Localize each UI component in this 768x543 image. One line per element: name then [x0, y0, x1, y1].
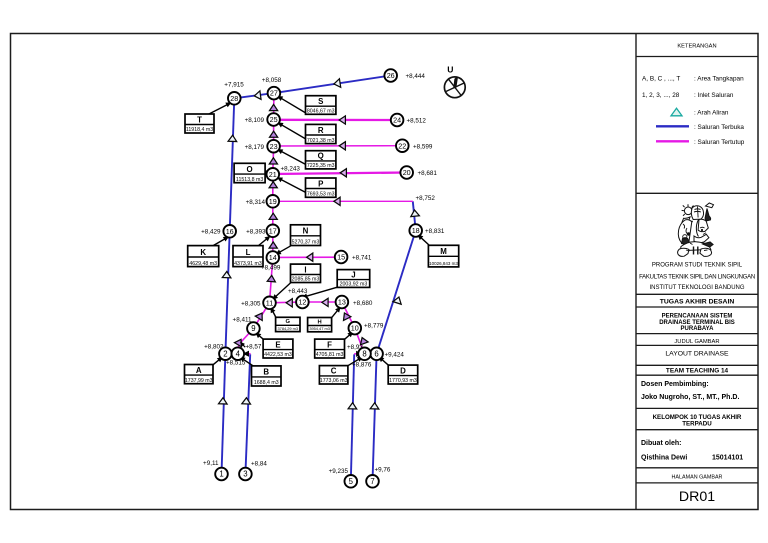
flow arrow on 8-10 — [358, 336, 368, 345]
leader K-16 — [213, 234, 231, 246]
leader I-11 — [270, 283, 290, 302]
svg-text:11513,8 m3: 11513,8 m3 — [236, 177, 263, 183]
legend arah aliran triangle — [671, 108, 729, 116]
leader B-4 — [238, 355, 254, 367]
svg-text:26: 26 — [387, 71, 395, 80]
svg-text:+8,779: +8,779 — [364, 323, 384, 330]
closed channel 13-12 — [302, 301, 342, 303]
flow arrow on 5-8 — [348, 403, 357, 409]
leader R-25 — [276, 120, 306, 139]
node 21 — [267, 168, 280, 181]
node 4 — [232, 347, 245, 360]
elevation label +8,802 — [204, 344, 224, 351]
flow arrow on 22-23 — [339, 142, 345, 150]
svg-text:INSTITUT TEKNOLOGI BANDUNG: INSTITUT TEKNOLOGI BANDUNG — [649, 285, 744, 291]
open channel 18-corner — [413, 201, 416, 230]
svg-text:A, B, C , ..., T: A, B, C , ..., T — [642, 76, 680, 83]
svg-text:Q: Q — [318, 152, 324, 161]
svg-text:4373,91 m3: 4373,91 m3 — [234, 261, 262, 267]
elevation label +8,411 — [233, 317, 252, 324]
DR01 cell — [679, 489, 715, 505]
elevation label +8,93 — [347, 344, 363, 351]
svg-text:4: 4 — [236, 349, 241, 358]
legend saluran terbuka — [656, 124, 744, 131]
flow arrow on 24-25 — [339, 116, 345, 124]
svg-text:6: 6 — [374, 349, 378, 358]
svg-text:20: 20 — [403, 168, 411, 177]
svg-text:9: 9 — [251, 324, 255, 333]
elevation label +8,429 — [201, 229, 221, 236]
flow arrow on 17-19 — [269, 213, 277, 219]
compass north arrow U — [444, 65, 465, 98]
svg-text:2003,92 m3: 2003,92 m3 — [340, 282, 368, 288]
leader N-14 — [274, 246, 291, 257]
node 16 — [223, 225, 236, 238]
closed channel 21-23 — [272, 146, 275, 174]
area box E — [263, 339, 293, 358]
svg-text:: Arah Aliran: : Arah Aliran — [694, 110, 729, 117]
svg-text:E: E — [275, 340, 280, 349]
dibuat oleh cell — [641, 440, 743, 462]
elevation label +8,741 — [352, 255, 372, 262]
svg-text:H: H — [318, 319, 322, 325]
svg-text:22: 22 — [398, 141, 406, 150]
flow arrow on 7-6 — [370, 403, 379, 409]
svg-text:+8,831: +8,831 — [425, 228, 445, 235]
svg-text:+8,802: +8,802 — [204, 344, 224, 351]
flow arrow on 14-17 — [269, 242, 277, 248]
svg-text:1: 1 — [219, 470, 223, 479]
svg-text:3954,47 m3: 3954,47 m3 — [309, 326, 330, 331]
svg-text:1688,4 m3: 1688,4 m3 — [254, 380, 279, 386]
svg-text:JUDUL GAMBAR: JUDUL GAMBAR — [674, 339, 719, 345]
leader S-27 — [276, 94, 306, 113]
node 5 — [345, 475, 358, 488]
svg-text:+8,243: +8,243 — [281, 165, 301, 172]
flow arrow on 3-4 — [242, 398, 251, 405]
svg-text:+8,058: +8,058 — [262, 77, 282, 84]
svg-text:+8,681: +8,681 — [418, 170, 438, 177]
open channel 1-2 — [222, 354, 226, 474]
flow arrow into 8 — [356, 351, 362, 357]
svg-text:+8,57: +8,57 — [246, 343, 262, 350]
elevation label +8,058 — [262, 77, 282, 84]
closed channel 12-11 — [270, 301, 303, 304]
elevation label +8,179 — [245, 144, 265, 151]
closed channel 19-21 — [272, 174, 274, 201]
node 8 — [358, 348, 371, 361]
svg-text:P: P — [318, 179, 323, 188]
svg-text:+8,599: +8,599 — [413, 143, 433, 150]
label leader +8,57 — [238, 340, 245, 347]
svg-text:+8,512: +8,512 — [407, 118, 427, 125]
svg-text:Dibuat oleh:: Dibuat oleh: — [641, 440, 681, 447]
flow arrow into 4 — [243, 351, 249, 357]
svg-text:LAYOUT DRAINASE: LAYOUT DRAINASE — [665, 350, 729, 357]
svg-text:15: 15 — [337, 253, 345, 262]
svg-text:D: D — [400, 366, 406, 375]
elevation label +9,11 — [203, 460, 219, 467]
svg-text:+8,444: +8,444 — [406, 73, 426, 80]
svg-text:A: A — [196, 366, 202, 375]
elevation label +8,444 — [406, 73, 426, 80]
flow arrow on 25-27 — [270, 104, 278, 110]
svg-text:7021,38 m3: 7021,38 m3 — [307, 138, 335, 144]
node 15 — [335, 251, 348, 264]
svg-text:+8,314: +8,314 — [246, 199, 266, 206]
svg-text:I: I — [304, 265, 306, 274]
elevation label +8,393 — [246, 229, 266, 236]
flow arrow on 27-28 — [254, 91, 261, 100]
elevation label +8,109 — [245, 117, 265, 124]
svg-text:N: N — [303, 227, 309, 236]
elevation label +8,831 — [425, 228, 445, 235]
svg-text:KETERANGAN: KETERANGAN — [677, 43, 716, 49]
closed channel 15-14 — [273, 256, 341, 258]
area box T — [185, 114, 214, 133]
closed channel 22-23 — [274, 145, 403, 147]
open channel 16-28 — [230, 98, 235, 231]
flow arrow on 23-25 — [270, 131, 278, 137]
closed channel 24-25 — [274, 119, 398, 121]
area box N — [291, 225, 321, 246]
elevation label +8,512 — [407, 118, 427, 125]
svg-text:FAKULTAS TEKNIK SIPIL DAN LING: FAKULTAS TEKNIK SIPIL DAN LINGKUNGAN — [639, 274, 755, 280]
leader E-9 — [254, 331, 264, 340]
elevation label +8,680 — [353, 300, 373, 307]
area box L — [233, 246, 263, 267]
node 9 — [247, 322, 260, 335]
leader Q-23 — [276, 147, 306, 165]
svg-text:+8,109: +8,109 — [245, 117, 265, 124]
node 13 — [336, 296, 349, 309]
svg-text:+9,76: +9,76 — [375, 467, 391, 474]
svg-text:+8,499: +8,499 — [261, 265, 281, 272]
node 1 — [215, 468, 228, 481]
area box P — [306, 178, 336, 198]
area box O — [234, 163, 265, 183]
elevation label +8,84 — [251, 461, 267, 468]
leader O-21 — [264, 170, 271, 177]
elevation label +8,305 — [241, 301, 261, 308]
svg-text:Joko Nugroho, ST., MT., Ph.D.: Joko Nugroho, ST., MT., Ph.D. — [641, 394, 739, 401]
title block header KETERANGAN — [677, 43, 716, 49]
halaman gambar cell — [672, 474, 723, 480]
elevation label +8,599 — [413, 143, 433, 150]
closed channel stub into 4 — [241, 353, 251, 355]
svg-text:16: 16 — [226, 227, 234, 236]
node 28 — [228, 92, 241, 105]
flow arrow on 21-23 — [269, 158, 277, 164]
node 3 — [239, 468, 252, 481]
node 25 — [267, 113, 280, 126]
svg-text:25: 25 — [270, 115, 278, 124]
flow arrow on corner-19 — [334, 197, 340, 205]
area box G — [276, 317, 300, 331]
leader L-17 — [258, 234, 272, 246]
svg-text:7: 7 — [370, 477, 374, 486]
closed channel stub into 8 — [354, 353, 364, 355]
leader D-6 — [377, 355, 389, 366]
dosen pembimbing cell — [641, 381, 739, 401]
layout drainase cell — [665, 350, 729, 357]
node 27 — [268, 87, 281, 100]
svg-text:+8,752: +8,752 — [416, 195, 436, 202]
node 14 — [267, 251, 280, 264]
svg-text:5: 5 — [349, 477, 354, 486]
svg-text:17: 17 — [269, 226, 277, 235]
svg-text:+8,741: +8,741 — [352, 255, 372, 262]
svg-text:1770,93 m3: 1770,93 m3 — [389, 378, 417, 384]
flow arrow on 19-21 — [269, 182, 277, 188]
svg-text:TUGAS AKHIR DESAIN: TUGAS AKHIR DESAIN — [660, 298, 735, 305]
svg-text:: Inlet Saluran: : Inlet Saluran — [694, 92, 734, 99]
team teaching cell — [666, 368, 729, 375]
svg-text:3: 3 — [243, 470, 247, 479]
svg-text:10026,843 m3: 10026,843 m3 — [429, 261, 458, 266]
svg-text:3784,29 m3: 3784,29 m3 — [278, 326, 299, 331]
elevation label +7,915 — [224, 81, 244, 88]
svg-text:11918,4 m3: 11918,4 m3 — [186, 127, 213, 133]
svg-text:19: 19 — [269, 197, 277, 206]
flow arrow on 20-21 — [340, 169, 346, 177]
elevation label +8,515 — [226, 359, 246, 366]
svg-text:L: L — [246, 248, 251, 257]
elevation label +9,235 — [329, 468, 349, 475]
svg-text:4422,53 m3: 4422,53 m3 — [264, 352, 292, 358]
node 6 — [370, 348, 383, 361]
judul gambar cell — [674, 339, 719, 345]
area box A — [185, 365, 214, 384]
flow arrow on 2-16 — [222, 271, 231, 277]
area box D — [388, 365, 418, 384]
svg-text:T: T — [197, 115, 202, 124]
ITB ganesha logo — [678, 203, 714, 256]
elevation label +8,443 — [288, 288, 308, 295]
svg-text:PROGRAM STUDI TEKNIK SIPIL: PROGRAM STUDI TEKNIK SIPIL — [652, 263, 743, 269]
svg-text:O: O — [247, 165, 253, 174]
svg-text:+9,11: +9,11 — [203, 460, 219, 467]
open channel 27-28 — [234, 93, 274, 98]
svg-text:: Area Tangkapan: : Area Tangkapan — [694, 76, 744, 83]
svg-text:14: 14 — [269, 253, 277, 262]
closed channel 25-27 — [273, 93, 275, 119]
area box C — [319, 366, 348, 385]
open channel 2-16 — [225, 231, 229, 353]
leader C-8 — [348, 354, 365, 365]
svg-text:+8,84: +8,84 — [251, 461, 267, 468]
svg-text:27: 27 — [270, 89, 278, 98]
closed channel 18corner-19 — [273, 200, 413, 202]
node 2 — [219, 347, 232, 360]
svg-text:4705,81 m3: 4705,81 m3 — [316, 352, 344, 358]
open channel 7-6 — [373, 354, 377, 482]
svg-text:+8,93: +8,93 — [347, 344, 363, 351]
node 23 — [267, 140, 280, 153]
svg-text:28: 28 — [230, 94, 238, 103]
svg-text:24: 24 — [393, 116, 401, 125]
node 22 — [396, 139, 409, 152]
node 24 — [391, 114, 404, 127]
svg-text:: Saluran Terbuka: : Saluran Terbuka — [694, 124, 744, 131]
svg-text:PERENCANAAN SISTEM: PERENCANAAN SISTEM — [662, 314, 733, 320]
svg-text:1, 2, 3, ..., 28: 1, 2, 3, ..., 28 — [642, 92, 680, 99]
svg-text:+8,429: +8,429 — [201, 229, 221, 236]
svg-text:DR01: DR01 — [679, 489, 715, 505]
elevation label +9,76 — [375, 467, 391, 474]
svg-text:1773,06 m3: 1773,06 m3 — [320, 378, 348, 384]
svg-text:PURABAYA: PURABAYA — [681, 326, 715, 332]
svg-text:8: 8 — [362, 349, 366, 358]
svg-text:23: 23 — [270, 142, 278, 151]
flow arrow on 12-11 — [286, 299, 292, 307]
flow arrow on 16-28 — [228, 135, 237, 141]
elevation label +8,499 — [261, 265, 281, 272]
svg-text:15014101: 15014101 — [712, 455, 743, 462]
area box H — [308, 318, 332, 332]
area box F — [315, 339, 345, 358]
svg-text:B: B — [263, 368, 269, 377]
svg-text:+8,515: +8,515 — [226, 359, 246, 366]
svg-text:5270,37 m3: 5270,37 m3 — [292, 240, 320, 246]
open channel 6-18 — [377, 231, 416, 354]
elevation label +8,243 — [281, 165, 301, 172]
flow arrow on 15-14 — [307, 253, 313, 261]
svg-text:DRAINASE TERMINAL BIS: DRAINASE TERMINAL BIS — [659, 320, 735, 326]
svg-text:Qisthina Dewi: Qisthina Dewi — [641, 455, 687, 462]
tugas akhir desain cell — [660, 298, 735, 305]
svg-text:G: G — [286, 319, 291, 325]
svg-text:S: S — [318, 97, 323, 106]
elevation label +8,752 — [416, 195, 436, 202]
svg-text:2085,85 m3: 2085,85 m3 — [292, 277, 320, 283]
legend saluran tertutup — [656, 139, 745, 146]
area box R — [306, 124, 336, 143]
svg-text:+8,443: +8,443 — [288, 288, 308, 295]
closed channel 20-21 — [273, 173, 407, 175]
area box K — [188, 246, 219, 267]
svg-text:TEAM TEACHING 14: TEAM TEACHING 14 — [666, 368, 729, 375]
closed channel 11-14 — [270, 258, 273, 303]
node 26 — [384, 69, 397, 82]
open channel 5-8 riser — [351, 354, 354, 481]
node 10 — [349, 322, 362, 335]
svg-text:7225,35 m3: 7225,35 m3 — [307, 163, 335, 169]
elevation label +8,779 — [364, 323, 384, 330]
leader G-11 — [268, 306, 276, 318]
svg-text:12: 12 — [298, 298, 306, 307]
closed channel 9-11 — [253, 303, 269, 329]
svg-text:+8,680: +8,680 — [353, 300, 373, 307]
node 19 — [267, 195, 280, 208]
closed channel 8-10 — [355, 328, 365, 354]
svg-text:+9,424: +9,424 — [385, 352, 405, 359]
flow arrow on 26-27 — [333, 79, 340, 88]
svg-text:11: 11 — [266, 298, 273, 307]
node 18 — [409, 224, 422, 237]
flow arrow on 4-9 — [234, 337, 244, 346]
svg-text:U: U — [447, 65, 453, 75]
svg-text:21: 21 — [269, 170, 277, 179]
closed channel 4-9 — [238, 329, 254, 354]
leader T-28 — [208, 100, 233, 114]
area box M — [428, 245, 458, 267]
leader F-10 — [345, 330, 355, 340]
svg-text:R: R — [318, 126, 324, 135]
svg-text:8046,67 m3: 8046,67 m3 — [307, 109, 335, 115]
open channel 3-4 riser — [245, 354, 250, 474]
svg-text:Dosen Pembimbing:: Dosen Pembimbing: — [641, 381, 709, 388]
svg-text:7693,53 m3: 7693,53 m3 — [307, 192, 335, 198]
svg-text:+7,915: +7,915 — [224, 81, 244, 88]
flow arrow on 18-corner — [410, 210, 419, 217]
svg-text:18: 18 — [412, 226, 420, 235]
svg-text:4629,48 m3: 4629,48 m3 — [189, 261, 217, 267]
area box B — [252, 366, 282, 386]
node 11 — [263, 297, 276, 310]
svg-text:10: 10 — [351, 324, 359, 333]
svg-text:+8,876: +8,876 — [352, 361, 372, 368]
svg-text:13: 13 — [338, 298, 346, 307]
leader J-12 — [301, 287, 337, 300]
node 12 — [296, 296, 309, 309]
svg-text:: Saluran Tertutup: : Saluran Tertutup — [694, 139, 745, 146]
svg-text:+8,305: +8,305 — [241, 301, 261, 308]
leader M-18 — [416, 232, 430, 245]
svg-text:+8,411: +8,411 — [233, 317, 252, 324]
leader A-2 — [212, 355, 225, 366]
svg-text:TERPADU: TERPADU — [682, 421, 712, 428]
flow arrow on 10-13 — [341, 311, 351, 320]
flow arrow on 11-14 — [267, 275, 276, 282]
area box Q — [306, 151, 336, 169]
svg-text:1737,99 m3: 1737,99 m3 — [185, 378, 213, 384]
svg-text:+8,393: +8,393 — [246, 229, 266, 236]
elevation label +8,57 — [246, 343, 262, 350]
node 17 — [267, 225, 280, 238]
closed channel 17-19 — [272, 201, 274, 231]
svg-text:+9,235: +9,235 — [329, 468, 349, 475]
closed channel 10-13 — [342, 302, 355, 328]
elevation label +8,876 — [352, 361, 372, 368]
flow arrow on 13-12 — [322, 298, 328, 306]
closed channel 23-25 — [273, 120, 275, 147]
node 20 — [400, 166, 413, 179]
flow arrow on 1-2 — [218, 398, 227, 404]
closed channel 14-17 — [272, 231, 274, 258]
kelompok cell — [653, 414, 742, 428]
svg-text:M: M — [440, 247, 447, 256]
elevation label +8,681 — [418, 170, 438, 177]
svg-text:K: K — [200, 248, 206, 257]
leader P-21 — [276, 175, 306, 193]
svg-text:HALAMAN GAMBAR: HALAMAN GAMBAR — [672, 474, 723, 480]
elevation label +8,314 — [246, 199, 266, 206]
svg-text:J: J — [351, 270, 355, 279]
node 7 — [366, 475, 379, 488]
flow arrow on 9-11 — [255, 311, 265, 321]
area box S — [306, 96, 336, 115]
svg-text:F: F — [327, 340, 332, 349]
leader H-13 — [332, 305, 343, 318]
program studi lines — [639, 263, 755, 292]
elevation label +9,424 — [385, 352, 405, 359]
legend row area tangkapan — [642, 76, 744, 83]
legend row inlet saluran — [642, 92, 734, 99]
area box I — [291, 264, 321, 283]
svg-text:+8,179: +8,179 — [245, 144, 265, 151]
title block — [636, 34, 758, 510]
